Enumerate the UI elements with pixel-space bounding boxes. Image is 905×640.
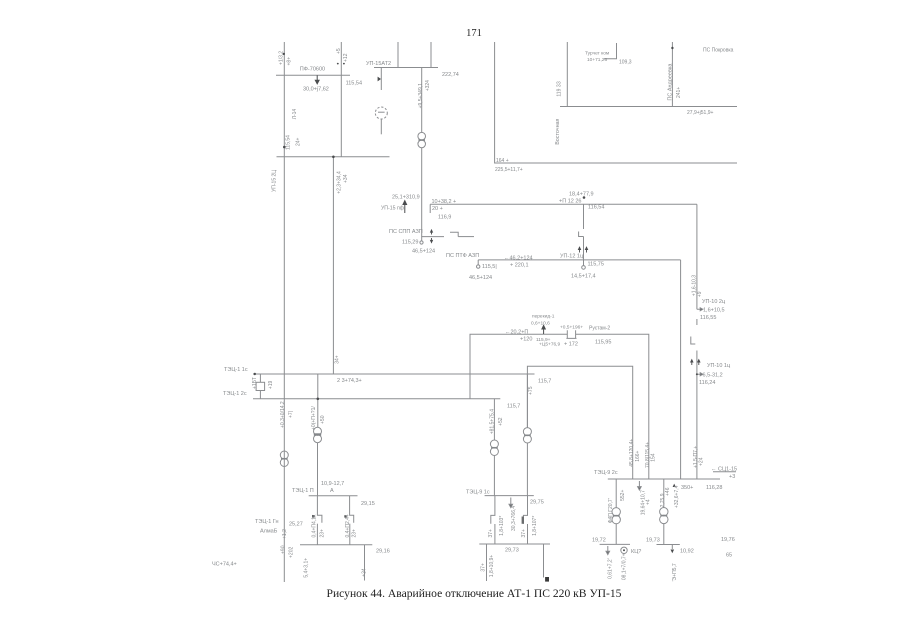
svg-text:ПС Покровка: ПС Покровка: [703, 48, 734, 54]
svg-text:222,74: 222,74: [442, 72, 459, 78]
svg-text:116,24: 116,24: [699, 380, 715, 386]
svg-text:18,4+77,9: 18,4+77,9: [569, 191, 594, 197]
dot in generator G1: [623, 549, 625, 551]
svg-text:1,6+10,5: 1,6+10,5: [703, 308, 725, 314]
wire: feeder V1 UP-15 2C: [283, 42, 285, 582]
svg-text:+7|: +7|: [288, 411, 294, 418]
arrow right of AT2 stub: [378, 77, 381, 82]
svg-text:ТЭЦ-1 Гн: ТЭЦ-1 Гн: [255, 519, 279, 525]
svg-text:+46: +46: [665, 487, 671, 496]
svg-text:АлмаБ: АлмаБ: [260, 528, 278, 534]
wire: below T1 to node: [420, 148, 423, 244]
wire: drop UP-12 upper: [583, 204, 585, 229]
svg-text:29,75: 29,75: [530, 499, 544, 505]
arrows pair UP-10 1c: [691, 360, 700, 365]
svg-text:115,5|: 115,5|: [482, 264, 497, 270]
svg-text:37+: 37+: [488, 529, 494, 538]
feeder below 29.73 left: [486, 544, 488, 581]
wire: corner down to TEC-9 bus: [680, 260, 682, 479]
svg-text:+32,6+7,4: +32,6+7,4: [674, 485, 680, 508]
wire: feeder V7 PS Andreevka: [671, 42, 673, 107]
svg-text:+2,3+34,4: +2,3+34,4: [336, 171, 342, 194]
svg-text:08,1+7/0,7+: 08,1+7/0,7+: [622, 553, 628, 580]
svg-text:ТЭЦ-9 2с: ТЭЦ-9 2с: [594, 470, 618, 476]
svg-text:+34: +34: [361, 568, 367, 577]
bracket label top: [604, 43, 617, 59]
svg-text:+120: +120: [520, 336, 532, 342]
wire: rectangle top Rustam: [527, 366, 632, 479]
wire: line PS PTF AZP: [478, 259, 680, 261]
wire: feeder V5 line 164: [495, 42, 737, 163]
svg-text:+9: +9: [697, 291, 703, 297]
svg-text:УП-10 2ц: УП-10 2ц: [702, 299, 726, 305]
arrow down below bus PF: [315, 75, 319, 84]
svg-text:+50: +50: [320, 415, 326, 424]
svg-text:КЦ?: КЦ?: [631, 549, 641, 555]
wire: branch from bus B down: [332, 157, 334, 374]
svg-text:241+: 241+: [676, 87, 682, 98]
wire: feeder V4 to AT2 bus: [430, 42, 432, 68]
generator G1: [621, 547, 627, 553]
bus TEC-1 2s: [253, 398, 500, 400]
bus coupler box: [256, 374, 265, 399]
arrows pair UP-12: [578, 247, 587, 252]
svg-text:+324: +324: [425, 80, 431, 91]
node dot line1 left end: [254, 373, 256, 375]
svg-text:+3: +3: [729, 474, 735, 480]
node dot x317 on bus 2s: [317, 398, 320, 401]
svg-text:← СЦ1-15: ← СЦ1-15: [711, 466, 737, 472]
svg-text:ПФ-70600: ПФ-70600: [300, 67, 325, 73]
svg-text:'Э+П5,7: 'Э+П5,7: [672, 563, 678, 581]
svg-text:ТЭЦ-1 2с: ТЭЦ-1 2с: [223, 391, 247, 397]
wire: drop gen2: [663, 479, 665, 508]
svg-text:116,55: 116,55: [700, 315, 716, 321]
svg-text:УП-10 1ц: УП-10 1ц: [707, 363, 731, 369]
bus UP-15AT2: [374, 67, 438, 69]
svg-text:УП-15АТ2: УП-15АТ2: [366, 61, 391, 67]
svg-text:2 3+74,3+: 2 3+74,3+: [337, 378, 362, 384]
svg-text:А: А: [330, 488, 334, 494]
arrow below 19.73: [671, 550, 675, 554]
node dot bus B branch: [332, 156, 335, 159]
svg-text:34+: 34+: [335, 355, 341, 364]
svg-text:10+71,26: 10+71,26: [587, 57, 607, 63]
svg-text:УП-15 2Ц: УП-15 2Ц: [272, 170, 278, 192]
wire: line PS SPP AZP with open switch: [421, 232, 474, 236]
breaker drop left TEC-1 P: [312, 496, 322, 545]
svg-text:19,76: 19,76: [721, 537, 735, 543]
bus 29.16: [300, 544, 372, 546]
arrow up on perekidka: [542, 325, 545, 334]
svg-text:1,8+10,9+: 1,8+10,9+: [489, 555, 495, 578]
svg-text:19,73: 19,73: [646, 537, 660, 543]
svg-text:+П 12 26: +П 12 26: [559, 198, 581, 204]
wire: stub below AT2 bus: [380, 68, 382, 91]
svg-text:Л-14: Л-14: [292, 109, 298, 120]
svg-text:6,5-31,2: 6,5-31,2: [703, 373, 723, 379]
svg-text:УП-12 1ц: УП-12 1ц: [560, 254, 584, 260]
svg-text:552+: 552+: [620, 490, 626, 501]
current transformer CT1 (dashed circle): [375, 107, 387, 134]
node: left end circle PTF: [477, 260, 480, 268]
svg-text:350+: 350+: [681, 485, 693, 491]
svg-text:ТЭЦ-9 1с: ТЭЦ-9 1с: [466, 490, 490, 496]
arrow hook UP-10 1c: [697, 373, 703, 376]
node dot V1 above bus B: [283, 146, 286, 149]
svg-text:+0,5+196+: +0,5+196+: [560, 324, 583, 330]
svg-text:+90: +90: [280, 545, 286, 554]
svg-text:Рустам-2: Рустам-2: [589, 325, 610, 331]
arrow down 19.64: [638, 481, 642, 490]
arrow down 0.61+7.2: [606, 546, 610, 555]
bus TEC-9 2s: [608, 478, 720, 480]
disconnect switch hook UP-12: [579, 232, 584, 237]
svg-text:Ф4П Г20,7': Ф4П Г20,7': [608, 498, 614, 523]
svg-text:ЧС+74,4+: ЧС+74,4+: [212, 561, 237, 567]
transformer T5: [523, 428, 531, 496]
wire: drop from rectangle left: [526, 374, 528, 428]
svg-text:+52: +52: [498, 417, 504, 426]
wire: UP-10 1c lower: [696, 351, 698, 480]
svg-text:116,28: 116,28: [706, 485, 722, 491]
transformer T7: [660, 508, 668, 545]
svg-text:+5: +5: [336, 48, 342, 54]
svg-text:+75: +75: [528, 386, 534, 395]
svg-text:1,8+103*: 1,8+103*: [499, 516, 505, 536]
svg-text:+1/3,2: +1/3,2: [279, 51, 285, 65]
svg-text:ПС СПП АЗП: ПС СПП АЗП: [389, 229, 423, 235]
svg-text:ТЭЦ-1 П: ТЭЦ-1 П: [292, 488, 314, 494]
wire: TEC-2 corner from bus 2s: [493, 399, 495, 440]
bus TEC-1 1s: [253, 373, 535, 375]
svg-text:+9,5+349,1: +9,5+349,1: [418, 83, 424, 109]
svg-text:115,54: 115,54: [346, 80, 362, 86]
svg-text:0,6+10,6: 0,6+10,6: [531, 320, 550, 326]
arrow small below TEC-9 2s bus: [673, 484, 676, 487]
arrow up UP-15 pf: [403, 201, 407, 213]
svg-text:29,73: 29,73: [505, 547, 519, 553]
feeder below 29.73 right: [543, 544, 545, 578]
svg-text:115,54: 115,54: [285, 135, 291, 150]
svg-text:Восточная: Восточная: [555, 118, 561, 144]
svg-text:30,0+j7,62: 30,0+j7,62: [303, 87, 329, 93]
node dot V7 top: [671, 47, 673, 49]
bus 29.73: [479, 543, 550, 545]
svg-text:+ 172: + 172: [564, 342, 578, 348]
breaker drop right TEC-1 P: [344, 496, 353, 545]
svg-text:+1БТ: +1БТ: [252, 377, 258, 389]
svg-text:119 ЗЗ: 119 ЗЗ: [557, 81, 563, 96]
svg-text:+8+: +8+: [286, 57, 292, 66]
svg-text:25,27: 25,27: [289, 521, 303, 527]
svg-text:29,15: 29,15: [361, 501, 375, 507]
wire: perekidka line 115.9: [470, 334, 649, 479]
svg-text:0,4+П4,1х: 0,4+П4,1х: [312, 514, 318, 537]
svg-text:14,5+17,4: 14,5+17,4: [571, 273, 596, 279]
wire: drop x317 from bus1: [317, 374, 319, 427]
wire: feeder V6 Vostochnaya: [566, 42, 568, 107]
svg-text:+19: +19: [268, 380, 274, 389]
svg-text:225,5+11,7+: 225,5+11,7+: [495, 167, 523, 173]
svg-text:+ 220,1: + 220,1: [510, 263, 529, 269]
wire: AT2 transformer feeder: [421, 68, 423, 133]
svg-text:+0,3+0/14,2: +0,3+0/14,2: [280, 401, 286, 428]
svg-text:46,5+124: 46,5+124: [469, 275, 492, 281]
svg-text:46,5+124: 46,5+124: [412, 248, 435, 254]
svg-text:+12: +12: [343, 53, 349, 62]
thick bar transformer T3: [314, 433, 321, 435]
breaker drop right TEC-9 1s: [523, 496, 527, 544]
svg-text:+202: +202: [288, 547, 294, 558]
svg-text:УП-15 пф: УП-15 пф: [381, 206, 405, 212]
svg-text:109,3: 109,3: [619, 60, 632, 66]
svg-text:19,72: 19,72: [592, 537, 606, 543]
svg-text:171: 171: [466, 28, 482, 39]
svg-text:1,8+107*: 1,8+107*: [532, 516, 538, 536]
breaker box on perekidka: [566, 330, 576, 338]
transformer overlap bars: [281, 140, 667, 516]
node dot 18.4+77.9: [583, 196, 586, 199]
svg-text:+34: +34: [343, 174, 349, 183]
svg-text:27,9+j51,9+: 27,9+j51,9+: [687, 110, 713, 116]
svg-text:23+: 23+: [320, 529, 326, 538]
svg-text:+Ц5+76,9: +Ц5+76,9: [539, 341, 560, 347]
svg-text:0,61+7,2': 0,61+7,2': [608, 558, 614, 579]
svg-text:0,4+П2,4+: 0,4+П2,4+: [345, 514, 351, 537]
svg-text:←46,2+124: ←46,2+124: [504, 256, 533, 262]
svg-text:ПС ПТФ АЗП: ПС ПТФ АЗП: [446, 253, 479, 259]
svg-text:115,7: 115,7: [538, 378, 551, 384]
bus PF-70600: [276, 74, 350, 76]
svg-text:+4: +4: [646, 499, 652, 505]
node dot V2 ticks: [337, 63, 339, 65]
transformer T3: [314, 427, 322, 496]
svg-text:Турчет ком: Турчет ком: [585, 51, 609, 57]
svg-text:115,29: 115,29: [402, 240, 418, 246]
svg-text:24+: 24+: [296, 137, 302, 146]
svg-text:Рисунок 44. Аварийное отключен: Рисунок 44. Аварийное отключение АТ-1 ПС…: [327, 587, 622, 600]
bus 19.73: [657, 545, 680, 550]
svg-text:164 +: 164 +: [496, 158, 509, 164]
svg-text:+0(+П+?1/: +0(+П+?1/: [311, 406, 317, 430]
svg-text:115,7: 115,7: [507, 403, 520, 409]
svg-text:166+: 166+: [635, 450, 641, 461]
feeder below bus 29.16 right: [364, 545, 366, 581]
node dot V1 top: [283, 53, 285, 55]
bus TEC-9 1s: [485, 495, 534, 497]
disconnect switch hook UP-10: [691, 337, 696, 345]
svg-text:37+: 37+: [481, 563, 487, 572]
bus TEC-1 P: [309, 495, 358, 497]
svg-text:+1,2: +1,2: [282, 529, 288, 539]
svg-text:10,92: 10,92: [680, 548, 694, 554]
svg-text:ТЭЦ-1 1с: ТЭЦ-1 1с: [224, 367, 248, 373]
transformer T4: [490, 440, 498, 496]
svg-text:ПС Андреевка: ПС Андреевка: [667, 63, 673, 101]
svg-text:+24: +24: [699, 457, 705, 466]
bus B UP-15: [277, 156, 390, 158]
arrow down 30.3+766.4: [509, 498, 513, 508]
svg-text:29,16: 29,16: [376, 548, 390, 554]
wire: feeder V3 to AT2 bus: [397, 42, 399, 68]
wire: right corner down UP-10 2c upper: [696, 204, 698, 325]
svg-text:116,9: 116,9: [438, 214, 451, 220]
breaker closed bar TEC-9 1s: [522, 517, 524, 524]
wire: drop UP-12 lower: [582, 237, 586, 270]
svg-text:25,1+310,9: 25,1+310,9: [392, 195, 420, 201]
transformer T2 on V1: [280, 451, 288, 467]
arrows pair SPP AZP: [431, 230, 433, 243]
junction dots and arrows (dark): [254, 47, 703, 582]
underline SC1-15: [713, 471, 736, 473]
wire: line PS Pokrovka: [560, 106, 737, 108]
svg-text:10+38,2 +: 10+38,2 +: [432, 199, 457, 205]
svg-text:65: 65: [726, 552, 732, 558]
svg-text:+81,5+75,4: +81,5+75,4: [489, 409, 495, 435]
svg-text:115,95: 115,95: [595, 339, 611, 345]
wire: drop gen1: [615, 479, 617, 508]
svg-text:37+: 37+: [521, 529, 527, 538]
svg-text:перекид-1: перекид-1: [532, 314, 555, 320]
svg-text:30,3+766,4: 30,3+766,4: [511, 506, 517, 531]
breaker drop left TEC-9 1s: [491, 496, 495, 544]
transformer T1: [418, 132, 426, 147]
transformer T6: [612, 508, 620, 545]
wire: line 10+38.2 horizontal: [430, 204, 697, 213]
svg-text:115,75: 115,75: [588, 262, 604, 268]
arrow hook UP-10 2c: [697, 308, 703, 311]
svg-text:5,4+3,1+: 5,4+3,1+: [304, 558, 310, 578]
svg-text:10,9-12,7: 10,9-12,7: [321, 481, 344, 487]
svg-text:←20,2+П: ←20,2+П: [505, 329, 528, 335]
wire: feeder V2: [340, 42, 342, 157]
bus 19.72: [600, 543, 630, 545]
svg-text:116,54: 116,54: [588, 204, 604, 210]
svg-text:154: 154: [651, 453, 657, 462]
end blob feeder 546: [545, 577, 549, 582]
svg-text:23+: 23+: [352, 529, 358, 538]
svg-text:20 +: 20 +: [432, 206, 443, 212]
